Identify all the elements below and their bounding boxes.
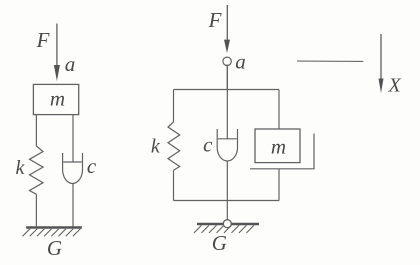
svg-text:c: c [203,133,213,157]
wire spring to bottom rail (right) [173,170,175,200]
ground node circle [223,220,231,228]
svg-text:F: F [36,28,50,52]
damper c piston (right) [218,138,237,140]
wire box to spring (left) [35,115,37,147]
mass m box (right) [255,129,300,163]
svg-text:a: a [65,52,76,76]
ground line (right) [197,223,259,225]
svg-text:m: m [50,87,65,111]
svg-text:X: X [387,75,401,97]
wire node a to top rail [226,65,228,90]
damper c piston (left) [63,161,82,163]
svg-text:G: G [47,236,62,260]
wire bottom rail to ground node [226,201,228,220]
bottom rail wire [174,200,280,202]
svg-text:F: F [208,8,222,32]
svg-text:G: G [212,231,227,255]
damper c cylinder (left) [63,153,83,184]
top rail wire [174,89,280,91]
svg-text:c: c [87,154,97,178]
svg-text:k: k [151,136,161,158]
wire top rail to spring (right) [173,90,175,123]
arrowhead F (left) [54,65,60,81]
spring k (left) [30,146,44,194]
mass bracket (right) [250,134,314,169]
force arrow F (left) [56,24,58,68]
spring k (right) [168,122,180,170]
wire spring to ground (left) [35,194,37,227]
force arrow F (right) [226,5,228,41]
node a circle (right) [223,57,231,65]
arrowhead X [379,79,384,94]
ground line (left) [26,226,82,228]
wire damper to ground (left) [72,184,74,228]
wire node a to damper piston [226,65,228,139]
damper c cylinder (right) [217,129,237,161]
ground hatching (right) [194,225,254,233]
datum line [297,60,363,62]
wire damper to bottom rail [226,161,228,201]
svg-text:m: m [271,134,286,158]
wire box to damper piston (left) [72,115,74,162]
ground hatching (left) [23,229,81,237]
svg-text:k: k [16,157,26,179]
svg-text:a: a [235,50,246,74]
displacement arrow X [380,34,382,80]
arrowhead F (right) [224,40,230,53]
wire bracket to bottom rail [278,169,280,201]
wire top rail to mass box (right) [278,90,280,130]
mass m box (left) [33,84,78,114]
